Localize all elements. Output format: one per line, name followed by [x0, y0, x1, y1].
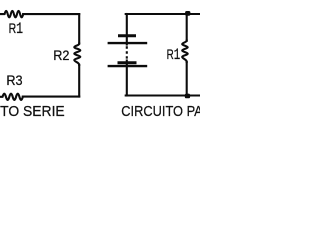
resistor R1 (series circuit, horizontal zigzag top-left): [0, 11, 23, 17]
wire: battery stem bottom: [126, 61, 128, 96]
svg-text:R3: R3: [6, 73, 22, 89]
wire: dashed stem between battery cells: [126, 46, 128, 58]
resistor R2 (series circuit, vertical curly): [74, 44, 80, 65]
wire: battery stem top: [126, 14, 128, 45]
svg-text:R1: R1: [9, 20, 24, 38]
wire: R1 branch bottom (parallel circuit): [186, 62, 188, 96]
junction dot top (parallel circuit): [185, 11, 190, 16]
wire: R1 branch top (parallel circuit): [186, 14, 188, 41]
battery B1 cell1 short thick plate: [118, 34, 136, 37]
resistor R1 (parallel circuit, vertical curly): [182, 41, 188, 62]
svg-text:CIRCUITO SERIE: CIRCUITO SERIE: [0, 104, 65, 120]
battery B1 cell2 short thick plate: [118, 61, 137, 64]
junction dot bottom (parallel circuit): [185, 94, 190, 99]
wire: R1 to top-right corner of series circuit: [23, 13, 79, 15]
battery B1 cell2 long thin plate: [108, 65, 148, 67]
svg-text:CIRCUITO PARALELO: CIRCUITO PARALELO: [121, 104, 200, 120]
battery B1 cell1 long thin plate: [108, 42, 148, 44]
wire: bottom of parallel circuit: [126, 94, 200, 96]
wire: R2 down to bottom-right corner: [78, 65, 80, 97]
wire: top of parallel circuit: [126, 13, 200, 15]
svg-text:R1: R1: [167, 46, 181, 64]
wire: bottom, corner to R3: [23, 96, 79, 98]
resistor R3 (series circuit, horizontal zigzag bottom-left): [0, 94, 23, 100]
wire: right vertical, corner down to R2: [78, 14, 80, 43]
svg-text:R2: R2: [53, 48, 69, 64]
